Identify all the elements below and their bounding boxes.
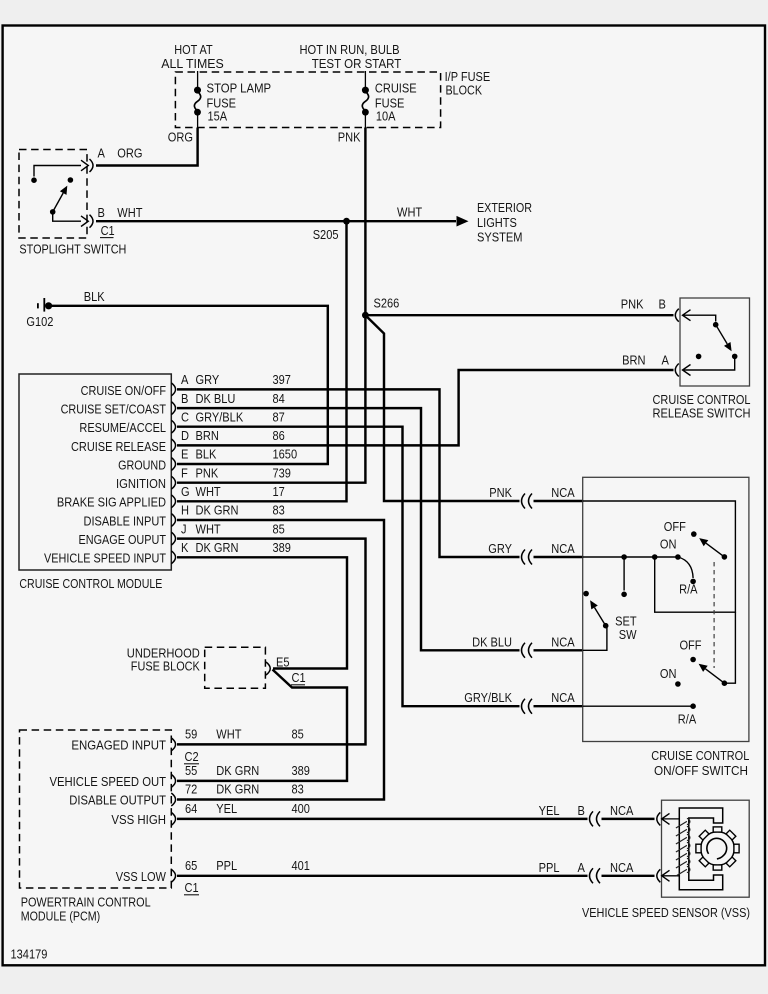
svg-text:NCA: NCA bbox=[551, 690, 575, 705]
svg-text:BLK: BLK bbox=[84, 289, 105, 304]
svg-text:WHT: WHT bbox=[397, 205, 422, 220]
module pin G: BRAKE SIG APPLIED, WHT 17 bbox=[171, 495, 175, 508]
svg-text:VEHICLE SPEED INPUT: VEHICLE SPEED INPUT bbox=[44, 551, 166, 566]
cruise control module box bbox=[19, 374, 171, 570]
PCM pin 59: ENGAGED INPUT, WHT 85 bbox=[171, 738, 175, 751]
svg-text:87: 87 bbox=[273, 409, 285, 424]
svg-text:BRN: BRN bbox=[622, 353, 645, 368]
wire DK GRN: module pin H down to PCM pin 72 (DISABLE OUTPUT) bbox=[177, 520, 384, 800]
svg-text:NCA: NCA bbox=[610, 860, 634, 875]
svg-text:PPL: PPL bbox=[539, 860, 560, 875]
svg-text:GRY: GRY bbox=[196, 372, 220, 387]
svg-text:PNK: PNK bbox=[621, 297, 644, 312]
wire BLK: G102 to module pin E (GROUND) bbox=[51, 306, 328, 464]
svg-text:BLOCK: BLOCK bbox=[446, 83, 483, 98]
module pin H: DISABLE INPUT, DK GRN 83 bbox=[171, 514, 175, 527]
on/off switch: lower OFF contact bbox=[690, 657, 696, 663]
wire: stop lamp fuse lower lead bbox=[197, 114, 199, 128]
module pin J: ENGAGE OUPUT, WHT 85 bbox=[171, 532, 175, 545]
svg-text:HOT AT: HOT AT bbox=[174, 42, 212, 57]
wire PNK: S266 to cruise control release switch terminal B bbox=[365, 314, 673, 316]
release switch blade bbox=[716, 325, 728, 344]
on/off switch: lower ON contact bbox=[675, 681, 681, 687]
VSS pole piece bbox=[679, 808, 722, 890]
wire BRN: module pin D to release switch terminal A bbox=[177, 370, 674, 445]
svg-text:D: D bbox=[181, 428, 189, 443]
svg-text:C1: C1 bbox=[101, 223, 115, 238]
svg-text:GRY/BLK: GRY/BLK bbox=[464, 690, 512, 705]
svg-text:ON: ON bbox=[660, 537, 677, 552]
svg-text:84: 84 bbox=[273, 391, 285, 406]
connector NCA on GRY wire bbox=[522, 550, 526, 565]
svg-text:B: B bbox=[659, 297, 666, 312]
svg-text:GRY: GRY bbox=[488, 541, 512, 556]
splice S205 bbox=[343, 218, 350, 225]
svg-text:C2: C2 bbox=[185, 749, 199, 764]
svg-text:BRAKE SIG APPLIED: BRAKE SIG APPLIED bbox=[57, 495, 166, 510]
svg-text:PPL: PPL bbox=[216, 858, 237, 873]
svg-text:A: A bbox=[662, 353, 670, 368]
svg-text:55: 55 bbox=[185, 763, 197, 778]
svg-text:B: B bbox=[181, 391, 188, 406]
svg-text:DK BLU: DK BLU bbox=[196, 391, 236, 406]
svg-text:YEL: YEL bbox=[216, 801, 237, 816]
svg-text:STOP LAMP: STOP LAMP bbox=[207, 81, 272, 96]
VSS terminal A connector bbox=[657, 869, 661, 882]
ground G102 bbox=[37, 303, 39, 308]
svg-text:DK GRN: DK GRN bbox=[216, 763, 259, 778]
cruise control release switch box bbox=[680, 298, 750, 386]
svg-text:72: 72 bbox=[185, 782, 197, 797]
module pin B: CRUISE SET/COAST, DK BLU 84 bbox=[171, 402, 175, 415]
svg-text:NCA: NCA bbox=[551, 485, 575, 500]
fuse: STOP LAMP FUSE 15A bbox=[194, 87, 201, 94]
svg-text:CRUISE CONTROL: CRUISE CONTROL bbox=[651, 748, 749, 763]
svg-text:H: H bbox=[181, 503, 189, 518]
svg-text:ALL TIMES: ALL TIMES bbox=[161, 56, 224, 71]
svg-text:PNK: PNK bbox=[489, 485, 512, 500]
on/off switch: lower blade (to OFF) bbox=[705, 669, 724, 683]
svg-text:1650: 1650 bbox=[273, 447, 298, 462]
svg-text:NCA: NCA bbox=[610, 803, 634, 818]
wire DK GRN: underhood fuse block C1 to PCM pin 55 (VEHICLE SPEED OUT) bbox=[177, 670, 347, 781]
vehicle speed sensor box bbox=[662, 800, 750, 897]
stoplight switch terminal B connector bbox=[90, 215, 94, 228]
wire DK BLU: module pin B to on/off switch bbox=[177, 408, 520, 650]
svg-text:DISABLE OUTPUT: DISABLE OUTPUT bbox=[69, 793, 166, 808]
wire WHT: stoplight switch B to exterior lights (through S205) bbox=[96, 220, 456, 222]
svg-text:VSS LOW: VSS LOW bbox=[116, 869, 167, 884]
svg-text:WHT: WHT bbox=[196, 521, 221, 536]
svg-text:C: C bbox=[181, 409, 189, 424]
on/off switch: PNK internal feed bbox=[583, 501, 736, 612]
on/off switch: set/coast contact stub bbox=[623, 557, 625, 591]
svg-text:G: G bbox=[181, 484, 190, 499]
stoplight switch (dashed box) bbox=[19, 150, 87, 239]
wire PNK: S266 down to module pin F (IGNITION) bbox=[177, 315, 365, 483]
svg-text:401: 401 bbox=[292, 858, 310, 873]
svg-text:J: J bbox=[181, 521, 187, 536]
svg-text:FUSE BLOCK: FUSE BLOCK bbox=[131, 659, 200, 674]
svg-text:397: 397 bbox=[273, 372, 291, 387]
svg-text:A: A bbox=[98, 146, 106, 161]
svg-text:TEST OR START: TEST OR START bbox=[312, 56, 402, 71]
svg-text:RESUME/ACCEL: RESUME/ACCEL bbox=[79, 420, 166, 435]
svg-text:85: 85 bbox=[292, 726, 304, 741]
powertrain control module (dashed box) bbox=[20, 730, 172, 888]
svg-text:G102: G102 bbox=[26, 314, 53, 329]
svg-text:389: 389 bbox=[273, 540, 291, 555]
svg-text:WHT: WHT bbox=[196, 484, 221, 499]
svg-text:10A: 10A bbox=[376, 108, 396, 123]
svg-text:POWERTRAIN CONTROL: POWERTRAIN CONTROL bbox=[21, 895, 151, 910]
on/off switch: upper OFF contact bbox=[691, 531, 697, 537]
VSS terminal B connector bbox=[657, 812, 661, 825]
on/off switch: upper R/A contact bbox=[678, 557, 693, 578]
svg-text:83: 83 bbox=[292, 782, 304, 797]
svg-text:CRUISE RELEASE: CRUISE RELEASE bbox=[71, 439, 166, 454]
svg-text:VSS HIGH: VSS HIGH bbox=[111, 812, 166, 827]
module pin A: CRUISE ON/OFF, GRY 397 bbox=[171, 383, 175, 396]
svg-text:DK GRN: DK GRN bbox=[196, 503, 239, 518]
svg-text:SW: SW bbox=[619, 627, 637, 642]
on/off switch: lower R/A contact (GRY/BLK) bbox=[583, 705, 693, 707]
svg-text:S266: S266 bbox=[374, 296, 400, 311]
cruise control on/off switch box bbox=[583, 477, 749, 741]
svg-text:85: 85 bbox=[273, 521, 285, 536]
svg-text:EXTERIOR: EXTERIOR bbox=[477, 200, 532, 215]
svg-text:STOPLIGHT SWITCH: STOPLIGHT SWITCH bbox=[19, 242, 126, 257]
module pin D: CRUISE RELEASE, BRN 86 bbox=[171, 439, 175, 452]
on/off switch: DK BLU internal run bbox=[583, 626, 607, 651]
svg-text:400: 400 bbox=[292, 801, 310, 816]
svg-text:R/A: R/A bbox=[678, 712, 697, 727]
svg-text:CRUISE CONTROL MODULE: CRUISE CONTROL MODULE bbox=[19, 576, 162, 591]
svg-text:C1: C1 bbox=[292, 670, 306, 685]
PCM pin 55: VEHICLE SPEED OUT, DK GRN 389 bbox=[171, 774, 175, 787]
svg-text:MODULE (PCM): MODULE (PCM) bbox=[21, 909, 101, 924]
svg-text:F: F bbox=[181, 465, 188, 480]
svg-text:SYSTEM: SYSTEM bbox=[477, 230, 523, 245]
connector NCA on DK BLU wire bbox=[522, 643, 526, 658]
svg-text:739: 739 bbox=[273, 465, 291, 480]
svg-text:64: 64 bbox=[185, 801, 197, 816]
svg-text:ON: ON bbox=[660, 666, 677, 681]
VSS reluctor wheel bbox=[701, 832, 735, 866]
svg-text:E5: E5 bbox=[276, 655, 290, 670]
on/off switch: dashed mechanical link bbox=[713, 562, 715, 668]
svg-text:WHT: WHT bbox=[216, 726, 241, 741]
svg-text:59: 59 bbox=[185, 726, 197, 741]
svg-text:DK GRN: DK GRN bbox=[216, 782, 259, 797]
svg-text:BLK: BLK bbox=[196, 447, 217, 462]
wire YEL: PCM pin 64 to VSS terminal B bbox=[177, 818, 588, 820]
svg-text:DISABLE INPUT: DISABLE INPUT bbox=[84, 513, 167, 528]
wire WHT: module pin J down to PCM pin 59 (ENGAGED INPUT) bbox=[177, 539, 366, 745]
wire: cruise fuse lower lead bbox=[364, 114, 366, 128]
svg-text:83: 83 bbox=[273, 503, 285, 518]
svg-text:65: 65 bbox=[185, 858, 197, 873]
wire GRY/BLK: module pin C to on/off switch bbox=[177, 427, 520, 707]
underhood fuse block (dashed box) bbox=[205, 647, 266, 688]
svg-text:GROUND: GROUND bbox=[118, 457, 166, 472]
connector NCA on GRY/BLK wire bbox=[522, 699, 526, 714]
svg-text:389: 389 bbox=[292, 763, 310, 778]
on/off switch: SET SW blade bbox=[595, 608, 606, 626]
svg-text:ON/OFF SWITCH: ON/OFF SWITCH bbox=[654, 763, 748, 778]
svg-text:S205: S205 bbox=[313, 227, 339, 242]
svg-text:LIGHTS: LIGHTS bbox=[477, 215, 517, 230]
svg-text:ENGAGED INPUT: ENGAGED INPUT bbox=[71, 737, 166, 752]
svg-text:RELEASE SWITCH: RELEASE SWITCH bbox=[653, 406, 751, 421]
connector NCA on PNK wire bbox=[522, 494, 526, 509]
svg-text:NCA: NCA bbox=[551, 541, 575, 556]
I/P fuse block (dashed box) bbox=[175, 72, 440, 128]
connector NCA on YEL wire bbox=[590, 811, 594, 826]
svg-text:ORG: ORG bbox=[117, 146, 142, 161]
svg-text:PNK: PNK bbox=[196, 465, 219, 480]
wire WHT: S205 down to module pin G (BRAKE SIG APPLIED) bbox=[177, 221, 347, 501]
svg-text:YEL: YEL bbox=[539, 803, 560, 818]
svg-text:BRN: BRN bbox=[196, 428, 219, 443]
svg-text:A: A bbox=[578, 860, 586, 875]
svg-text:VEHICLE SPEED SENSOR (VSS): VEHICLE SPEED SENSOR (VSS) bbox=[582, 905, 750, 920]
module pin K: VEHICLE SPEED INPUT, DK GRN 389 bbox=[171, 551, 175, 564]
module pin C: RESUME/ACCEL, GRY/BLK 87 bbox=[171, 420, 175, 433]
svg-text:B: B bbox=[98, 205, 105, 220]
svg-text:15A: 15A bbox=[208, 108, 228, 123]
module pin F: IGNITION, PNK 739 bbox=[171, 476, 175, 489]
svg-text:A: A bbox=[181, 372, 189, 387]
VSS coil bbox=[676, 819, 690, 877]
svg-text:VEHICLE SPEED OUT: VEHICLE SPEED OUT bbox=[50, 774, 167, 789]
wire DK GRN: module pin K to underhood fuse block E5 bbox=[177, 557, 347, 668]
release switch terminal B connector bbox=[675, 309, 679, 322]
release switch terminal A connector bbox=[675, 364, 679, 377]
on/off switch: GRY internal row bbox=[583, 556, 678, 558]
connector NCA on PPL wire bbox=[590, 868, 594, 883]
svg-text:DK BLU: DK BLU bbox=[472, 634, 512, 649]
svg-text:NCA: NCA bbox=[551, 634, 575, 649]
svg-text:WHT: WHT bbox=[117, 205, 142, 220]
svg-text:E: E bbox=[181, 447, 189, 462]
wire PNK: cruise fuse down to splice S266 bbox=[364, 128, 366, 316]
svg-text:PNK: PNK bbox=[338, 130, 361, 145]
svg-text:CRUISE ON/OFF: CRUISE ON/OFF bbox=[81, 383, 166, 398]
wire: hot feed into cruise fuse bbox=[364, 71, 366, 87]
stoplight switch terminal A connector bbox=[90, 159, 94, 172]
fuse: CRUISE FUSE 10A bbox=[362, 87, 369, 94]
PCM pin 64: VSS HIGH, YEL 400 bbox=[171, 812, 175, 825]
stoplight switch internal wiring bbox=[34, 166, 81, 177]
stoplight switch blade bbox=[53, 193, 64, 212]
svg-text:C1: C1 bbox=[185, 880, 199, 895]
release switch internal wiring bbox=[683, 315, 716, 321]
svg-text:DK GRN: DK GRN bbox=[196, 540, 239, 555]
wire PNK: S266 to cruise control on/off switch bbox=[365, 315, 519, 501]
PCM pin 72: DISABLE OUTPUT, DK GRN 83 bbox=[171, 793, 175, 806]
svg-text:R/A: R/A bbox=[679, 581, 698, 596]
svg-text:134179: 134179 bbox=[11, 947, 48, 962]
on/off switch: upper blade (to OFF) bbox=[706, 543, 724, 557]
svg-text:OFF: OFF bbox=[679, 638, 701, 653]
svg-text:OFF: OFF bbox=[664, 519, 686, 534]
wire PPL: PCM pin 65 to VSS terminal A bbox=[177, 875, 588, 877]
svg-text:86: 86 bbox=[273, 428, 285, 443]
PCM pin 65: VSS LOW, PPL 401 bbox=[171, 869, 175, 882]
svg-text:B: B bbox=[578, 803, 585, 818]
wire: hot feed into stop lamp fuse bbox=[197, 71, 199, 87]
wire GRY: module pin A to on/off switch bbox=[177, 389, 520, 557]
svg-text:GRY/BLK: GRY/BLK bbox=[196, 409, 244, 424]
on/off switch: SET SW contact bbox=[583, 591, 589, 597]
svg-text:17: 17 bbox=[273, 484, 285, 499]
module pin E: GROUND, BLK 1650 bbox=[171, 458, 175, 471]
svg-text:IGNITION: IGNITION bbox=[116, 476, 166, 491]
terminal E5 connector bbox=[266, 662, 270, 675]
svg-text:CRUISE SET/COAST: CRUISE SET/COAST bbox=[61, 402, 166, 417]
svg-text:ORG: ORG bbox=[168, 130, 193, 145]
svg-text:CRUISE: CRUISE bbox=[375, 81, 417, 96]
svg-text:HOT IN RUN, BULB: HOT IN RUN, BULB bbox=[300, 42, 400, 57]
svg-text:K: K bbox=[181, 540, 189, 555]
svg-text:ENGAGE OUPUT: ENGAGE OUPUT bbox=[79, 532, 167, 547]
wire ORG: stop lamp fuse to stoplight switch terminal A bbox=[96, 128, 198, 166]
